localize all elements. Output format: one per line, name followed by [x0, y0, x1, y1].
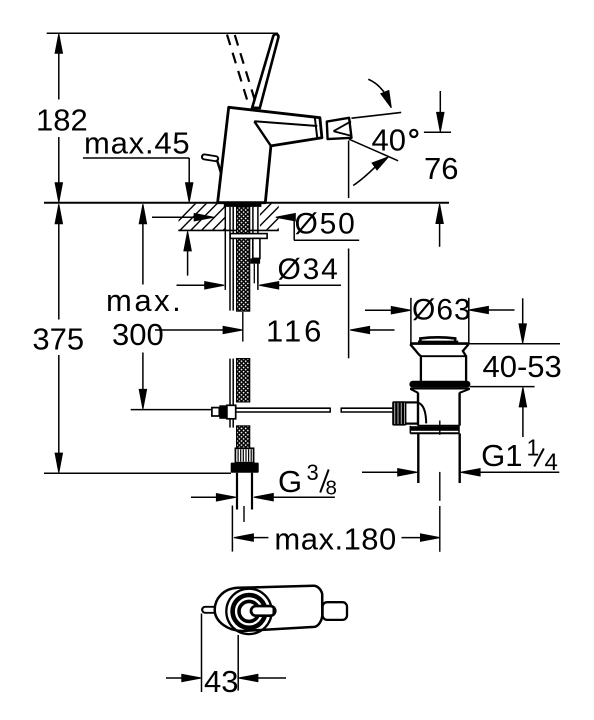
svg-text:375: 375	[32, 321, 84, 356]
svg-text:Ø34: Ø34	[278, 253, 340, 286]
svg-text:G: G	[278, 464, 302, 499]
svg-text:max.: max.	[106, 283, 183, 318]
svg-text:max.45: max.45	[84, 125, 190, 160]
svg-text:40-53: 40-53	[483, 349, 562, 384]
svg-text:8: 8	[326, 477, 337, 500]
svg-text:40: 40	[372, 122, 406, 157]
svg-text:300: 300	[112, 317, 164, 352]
svg-text:Ø50: Ø50	[295, 207, 357, 240]
svg-text:max.180: max.180	[274, 522, 396, 557]
svg-text:4: 4	[545, 449, 558, 476]
svg-text:182: 182	[36, 103, 88, 138]
svg-text:116: 116	[266, 313, 324, 348]
svg-text:1: 1	[527, 435, 540, 461]
svg-text:43: 43	[204, 664, 238, 699]
svg-text:3: 3	[307, 460, 319, 485]
svg-text:G1: G1	[481, 438, 522, 473]
svg-text:Ø63: Ø63	[412, 294, 472, 327]
svg-text:76: 76	[424, 151, 458, 186]
